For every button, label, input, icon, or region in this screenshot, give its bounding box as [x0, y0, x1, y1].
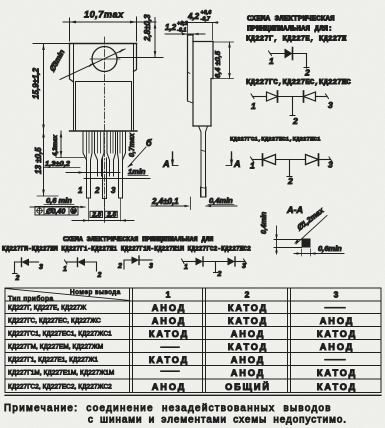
mini schematic 3 (KD227G1M group): wire from pin 2 with corner	[124, 260, 132, 269]
vertical centerline dash-dot	[104, 37, 106, 224]
0,4min dim	[276, 226, 278, 254]
note	[4, 403, 347, 426]
label b leader	[128, 138, 152, 167]
dim 1,2	[165, 21, 205, 35]
mini schematic 2 (KD227G1 group): wire from pin 1	[65, 260, 78, 264]
mini schematic 3: wire to pin 3	[139, 259, 152, 261]
side view body	[193, 42, 213, 127]
dim 0,4min bottom	[206, 196, 238, 207]
schematic 3: wire to pin 3	[319, 157, 333, 162]
mini schematic 1: diode cathode pin2 side, anode pin3 side	[22, 258, 30, 267]
table grid	[5, 288, 381, 395]
lead 1 shoulder	[83, 131, 92, 221]
dim 4,2 top	[181, 10, 218, 40]
section arrow A left	[162, 152, 178, 169]
dim 1,3±0,2	[44, 159, 120, 174]
mini schematic 4: wire to pin 3	[235, 259, 247, 264]
lead cross-section square	[302, 239, 311, 248]
mini schematic 4: diode VD2 anode common node, cathode pin3 side	[228, 257, 236, 266]
schematic 2: diode VD2 anode pin3 side, cathode to node	[304, 91, 316, 102]
mini schematic 4: wire between diodes (common node)	[203, 261, 228, 263]
0,6min dim	[294, 253, 344, 255]
mini schematic 4: diode VD1 anode pin1 side, cathode to common node	[196, 257, 204, 266]
hole diameter leader	[60, 49, 125, 80]
framed 2,5 boxes	[72, 211, 134, 222]
schematic 3 (KD227GS1/ES1/ZhS1): wire from pin 1	[251, 157, 263, 162]
schematic 3: diode VD1 cathode pin1 side, anode to node	[263, 154, 276, 166]
table dash cells	[161, 308, 345, 372]
dim 0,6min bottom left	[30, 196, 86, 208]
schematic 2: wire stub to pin 2	[290, 97, 295, 116]
lead 2 shoulder right strip	[107, 131, 116, 176]
schematic 3: wire between diodes (common anode node)	[276, 159, 306, 161]
mini schematic 2: wire to pin 2 with corner	[85, 262, 97, 271]
mini schematic 1: wire to pin 3	[29, 261, 39, 263]
schematic 2: wire between diodes (common cathode node)	[278, 96, 304, 98]
lead 2 pin	[103, 158, 107, 221]
dim 4,3max	[52, 131, 84, 158]
schematic 2: wire to pin 3	[316, 94, 329, 99]
dim 10,7max top	[63, 10, 156, 42]
dim 2,8±0,3 right of hole	[118, 14, 163, 58]
side view lead	[199, 126, 208, 197]
hole horizontal centerline	[90, 58, 120, 60]
dim 15,9±1,2 left	[32, 44, 70, 132]
schematic 1: wire to pin 2	[293, 54, 310, 69]
dim 6,4±0,5	[211, 42, 234, 79]
schematic 1 (KD227G/E/Zh): wire from pin 1	[269, 51, 285, 56]
front view body outline	[70, 44, 138, 132]
section arrow A right	[226, 152, 241, 169]
table pin function values	[149, 303, 357, 392]
table device type names column	[8, 305, 114, 391]
schematic 3: wire stub to pin 2	[287, 160, 292, 177]
side view tab	[188, 35, 194, 103]
position tolerance frame	[35, 207, 78, 216]
dim 13±0,5 far left	[34, 131, 58, 196]
mounting hole	[92, 47, 117, 72]
table column headers 1 2 3	[166, 290, 339, 300]
dim 2,4±0,1 bottom	[151, 197, 191, 210]
schematic 3: diode VD2 anode to node, cathode pin3 side	[306, 154, 319, 166]
mini schematic 4 (KD227GS2 group): wire from pin 1	[182, 259, 196, 264]
mini schematic 2: diode cathode pin1 side, anode pin2 side	[78, 258, 86, 267]
line 1min	[84, 167, 150, 179]
schematic 2: diode VD1 anode pin1 side, cathode to node	[267, 91, 278, 102]
lead 2 shoulder left strip	[95, 131, 105, 176]
table header: Nomer vyvoda / Tip pribora	[8, 289, 121, 303]
lead 3 shoulder	[118, 131, 126, 221]
schematic 1: diode VD1 anode left, cathode right	[285, 48, 293, 60]
schematic 2 (KD227GS/ES/ZhS): wire from pin 1	[251, 94, 267, 99]
mini schematic 1 (KD227GM group): wire from pin 2 with corner	[13, 262, 22, 274]
diagonal leader	[296, 216, 327, 245]
mini schematic 4: wire stub to pin 2	[214, 262, 219, 273]
mini schematic 3: diode anode pin2 side, cathode pin3 side	[132, 256, 140, 265]
